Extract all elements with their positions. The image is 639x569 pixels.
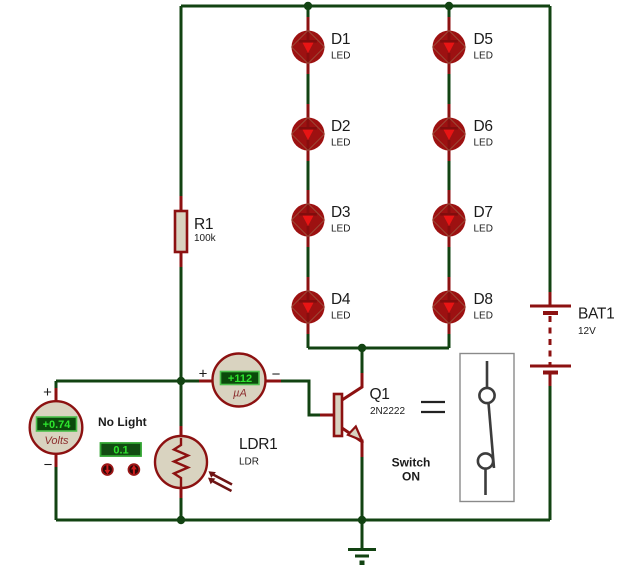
- svg-text:LED: LED: [474, 311, 493, 322]
- wire LED bottom rail: [308, 347, 449, 350]
- LDR control panel: up button: [129, 464, 140, 475]
- svg-text:+112: +112: [228, 373, 252, 385]
- svg-text:ON: ON: [402, 470, 420, 484]
- wire top rail: [181, 5, 550, 8]
- svg-text:D4: D4: [331, 291, 351, 308]
- LDR control panel: down button: [102, 464, 113, 475]
- svg-text:Volts: Volts: [44, 435, 69, 447]
- svg-text:0.1: 0.1: [113, 445, 128, 457]
- LED D4: [292, 277, 351, 334]
- svg-text:D1: D1: [331, 31, 350, 48]
- svg-text:−: −: [44, 457, 53, 474]
- svg-text:D6: D6: [474, 118, 493, 135]
- svg-text:LED: LED: [331, 311, 350, 322]
- switch symbol: [478, 361, 495, 495]
- svg-text:D8: D8: [474, 291, 493, 308]
- node top LED column 1: [304, 2, 312, 10]
- svg-text:100k: 100k: [194, 233, 217, 244]
- LED D2: [292, 104, 351, 161]
- transistor Q1: [320, 373, 405, 457]
- svg-text:+: +: [43, 384, 52, 401]
- LDR LDR1: [155, 426, 277, 498]
- switch actuator marks: [421, 401, 445, 403]
- wire right column (battery branch upper): [549, 6, 552, 292]
- svg-text:D2: D2: [331, 118, 350, 135]
- LED D7: [433, 190, 493, 247]
- svg-text:LED: LED: [474, 138, 493, 149]
- wire bottom rail: [56, 519, 550, 522]
- wire collector branch: [361, 348, 364, 373]
- wire left column (R1/LDR branch): [180, 6, 183, 520]
- battery BAT1: [530, 292, 614, 386]
- node R1 bottom junction: [177, 377, 185, 385]
- wire voltmeter branch: [55, 381, 58, 520]
- wire emitter branch: [361, 455, 364, 520]
- svg-text:LED: LED: [331, 138, 350, 149]
- LED D5: [433, 17, 493, 74]
- wire LED column 2: [448, 6, 451, 348]
- svg-text:2N2222: 2N2222: [370, 406, 405, 417]
- switch box: [460, 354, 514, 502]
- LED D6: [433, 104, 493, 161]
- wire ammeter to base: [265, 381, 334, 415]
- svg-text:LED: LED: [474, 224, 493, 235]
- svg-text:LED: LED: [474, 51, 493, 62]
- svg-text:Q1: Q1: [370, 386, 390, 403]
- node LDR bottom junction: [177, 516, 185, 524]
- wire right column (battery branch lower): [549, 386, 552, 520]
- LED D3: [292, 190, 351, 247]
- ground: [348, 520, 376, 565]
- node top LED column 2: [445, 2, 453, 10]
- svg-text:LED: LED: [331, 224, 350, 235]
- resistor R1: [175, 196, 217, 267]
- svg-text:µA: µA: [233, 388, 247, 400]
- svg-text:LED: LED: [331, 51, 350, 62]
- svg-text:−: −: [272, 366, 281, 383]
- svg-text:LDR1: LDR1: [239, 436, 277, 453]
- wire voltmeter to ammeter: [56, 380, 213, 383]
- LDR control panel: value display: [101, 443, 142, 456]
- svg-text:No Light: No Light: [98, 415, 147, 429]
- wire LED column 1: [307, 6, 310, 348]
- svg-text:D3: D3: [331, 204, 350, 221]
- svg-text:D5: D5: [474, 31, 493, 48]
- svg-text:Switch: Switch: [392, 456, 431, 470]
- svg-text:D7: D7: [474, 204, 493, 221]
- svg-text:+: +: [199, 366, 208, 383]
- svg-text:LDR: LDR: [239, 457, 259, 468]
- node LED rail to collector: [358, 344, 366, 352]
- ammeter: [199, 354, 281, 407]
- LED D8: [433, 277, 493, 334]
- LED D1: [292, 17, 351, 74]
- svg-text:BAT1: BAT1: [578, 306, 614, 323]
- voltmeter: [30, 384, 83, 474]
- node emitter to ground: [358, 516, 366, 524]
- svg-text:+0.74: +0.74: [43, 419, 72, 431]
- svg-text:R1: R1: [194, 216, 213, 233]
- svg-text:12V: 12V: [578, 326, 596, 337]
